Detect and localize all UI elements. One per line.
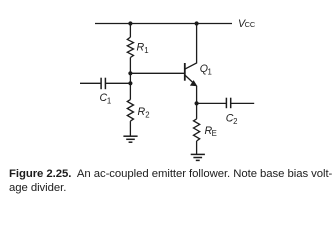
wire emitter node to C2 bbox=[197, 102, 227, 104]
wire R2 bottom to ground bbox=[129, 121, 131, 136]
svg-text:1: 1 bbox=[208, 67, 212, 76]
label RE bbox=[205, 125, 217, 138]
resistor RE bbox=[194, 119, 200, 141]
wire RE bottom to ground bbox=[196, 141, 198, 154]
capacitor C2 bbox=[226, 98, 230, 109]
caption bbox=[9, 167, 333, 197]
node C1/R2 junction bbox=[128, 81, 132, 85]
wire C2 output bbox=[231, 102, 255, 104]
transistor Q1 base bar bbox=[184, 63, 186, 81]
label R1 bbox=[137, 41, 149, 55]
node junction Vcc/Q1 collector bbox=[195, 21, 199, 25]
transistor Q1 collector bbox=[185, 24, 196, 69]
wire base node to Q1 base bbox=[130, 72, 184, 74]
resistor R1 bbox=[127, 37, 133, 57]
wire R1 top stub bbox=[129, 24, 131, 38]
wire emitter node down to RE bbox=[196, 103, 198, 119]
ground (RE) bbox=[191, 154, 205, 160]
wire R1 bottom to base node bbox=[129, 58, 131, 74]
wire C1 to node bbox=[105, 82, 130, 84]
node base junction bbox=[128, 71, 132, 75]
svg-text:E: E bbox=[212, 129, 217, 138]
transistor Q1 emitter bbox=[185, 75, 194, 84]
wire emitter down to node bbox=[196, 86, 198, 104]
label R2 bbox=[138, 106, 150, 120]
resistor R2 bbox=[127, 100, 133, 122]
ground (R2) bbox=[123, 136, 137, 142]
wire base node to C1 node bbox=[129, 73, 131, 83]
svg-text:CC: CC bbox=[245, 20, 256, 29]
label Q1 bbox=[200, 63, 212, 77]
label VCC bbox=[238, 18, 256, 30]
node emitter junction bbox=[195, 101, 199, 105]
label C1 bbox=[100, 92, 112, 106]
label C2 bbox=[226, 113, 238, 127]
transistor Q1 emitter arrowhead bbox=[190, 80, 198, 86]
node junction Vcc/R1 bbox=[128, 21, 132, 25]
svg-text:2: 2 bbox=[145, 111, 149, 120]
capacitor C1 bbox=[101, 78, 105, 90]
wire C1 node down to R2 bbox=[129, 83, 131, 99]
svg-text:1: 1 bbox=[144, 46, 148, 55]
svg-text:2: 2 bbox=[233, 117, 237, 126]
wire Vcc rail bbox=[95, 23, 232, 25]
wire input to C1 bbox=[80, 82, 101, 84]
svg-text:1: 1 bbox=[107, 96, 111, 105]
